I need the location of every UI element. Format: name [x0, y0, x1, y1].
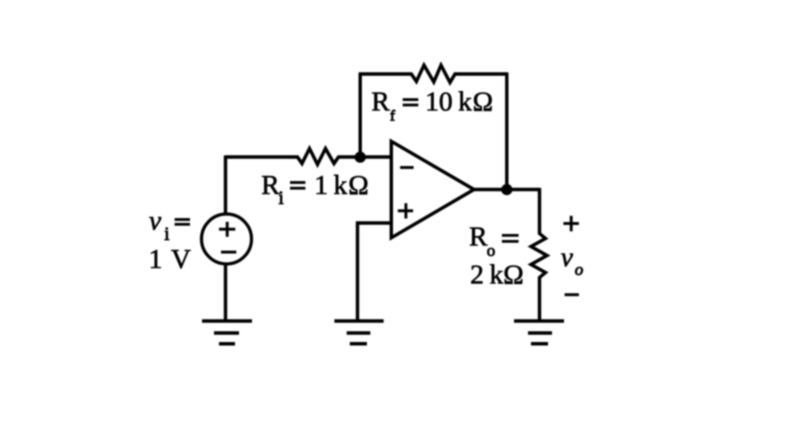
svg-text:o: o [487, 241, 496, 260]
svg-text:k: k [490, 258, 504, 289]
svg-text:R: R [469, 220, 488, 251]
svg-text:k: k [334, 169, 348, 200]
svg-text:Ω: Ω [348, 169, 368, 200]
svg-text:2: 2 [470, 258, 484, 289]
svg-text:Ω: Ω [473, 86, 493, 117]
svg-text:10: 10 [425, 86, 453, 117]
svg-text:Ω: Ω [503, 258, 523, 289]
svg-text:1: 1 [149, 243, 163, 274]
svg-text:v: v [561, 241, 574, 272]
svg-text:i: i [164, 224, 169, 245]
svg-text:R: R [261, 169, 280, 200]
svg-text:R: R [371, 86, 390, 117]
svg-text:1: 1 [314, 169, 328, 200]
svg-text:o: o [575, 260, 584, 279]
svg-text:V: V [171, 243, 191, 274]
svg-text:k: k [458, 86, 472, 117]
svg-text:i: i [279, 188, 284, 209]
svg-text:f: f [390, 109, 395, 125]
svg-text:v: v [149, 205, 162, 236]
